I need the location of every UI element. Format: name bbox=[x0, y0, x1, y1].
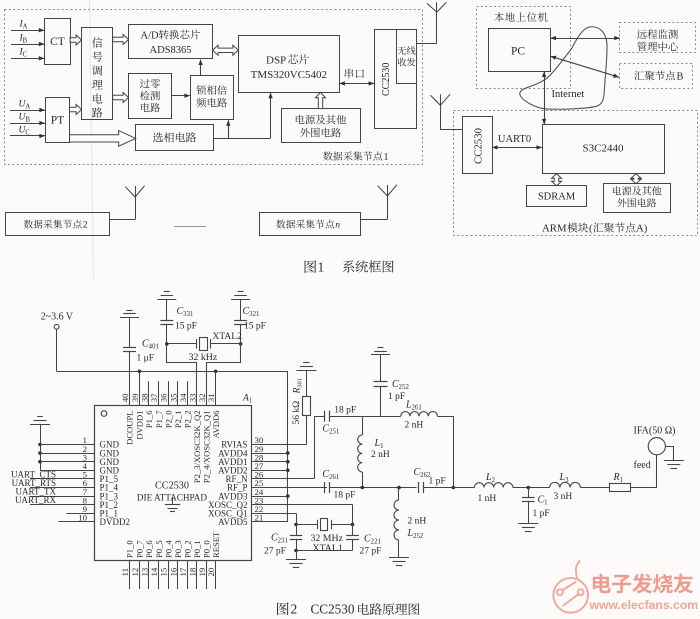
svg-text:2 nH: 2 nH bbox=[405, 421, 424, 431]
svg-text:1: 1 bbox=[384, 152, 389, 163]
antenna node n bbox=[387, 196, 389, 219]
pin 11 P1_0 stub bbox=[129, 561, 131, 589]
svg-text:2: 2 bbox=[291, 602, 298, 617]
arrow zero-cross to PLL bbox=[171, 95, 190, 97]
ground above R301 bbox=[296, 370, 316, 372]
input UB wire bbox=[10, 123, 45, 125]
svg-text:32 kHz: 32 kHz bbox=[189, 352, 218, 363]
svg-text:10: 10 bbox=[78, 513, 87, 523]
dashed box 本地上位机 local host bbox=[477, 7, 571, 89]
power rail bbox=[57, 371, 288, 373]
antenna node1 bbox=[436, 12, 438, 43]
wire phase-selection output bbox=[213, 138, 270, 140]
arrow PC to remote center (double) bbox=[551, 38, 620, 40]
svg-text:1 pF: 1 pF bbox=[429, 477, 446, 487]
svg-text:TMS320VC5402: TMS320VC5402 bbox=[251, 69, 327, 81]
pin 4 GND stub bbox=[40, 470, 95, 472]
top rail wire bbox=[329, 416, 400, 418]
block PC bbox=[489, 29, 551, 72]
wire XTAL2-left to pin33 bbox=[167, 344, 197, 406]
svg-text:CC2530: CC2530 bbox=[311, 602, 355, 617]
svg-text:1 pF: 1 pF bbox=[388, 392, 405, 402]
block CC2530 node1 bbox=[375, 30, 417, 129]
ground above C331 bbox=[157, 299, 176, 301]
ground below crystal caps bbox=[296, 551, 298, 560]
pin 9 P1_1 stub bbox=[67, 513, 96, 515]
svg-text:S3C2440: S3C2440 bbox=[583, 143, 624, 155]
label 数据采集节点1 bbox=[323, 151, 332, 160]
capacitor C261 18pF bbox=[252, 487, 325, 489]
svg-text:Internet: Internet bbox=[552, 89, 585, 100]
block 过零检测电路 zero-crossing detector bbox=[129, 74, 172, 119]
svg-text:UART0: UART0 bbox=[498, 134, 531, 145]
svg-text:SDRAM: SDRAM bbox=[538, 192, 576, 203]
svg-text:27 pF: 27 pF bbox=[360, 547, 382, 557]
block 电源及其他外围电路 (ARM) bbox=[604, 184, 671, 213]
pin 34 stub bbox=[187, 381, 189, 406]
wire C231-C221 bottoms bbox=[296, 550, 353, 552]
pin 20 RESET stub bbox=[215, 561, 217, 589]
pin 40 DCOUPL stub bbox=[129, 371, 131, 405]
svg-text:n: n bbox=[335, 220, 340, 231]
antenna ARM module bbox=[440, 105, 442, 129]
svg-text:3 nH: 3 nH bbox=[554, 492, 573, 502]
block CT bbox=[45, 19, 71, 65]
junction rail/C401/pin39 bbox=[138, 370, 142, 374]
svg-text:P0_2: P0_2 bbox=[183, 540, 193, 558]
watermark text 电子发烧友 bbox=[593, 574, 611, 593]
inductor L261 2nH bbox=[401, 412, 438, 417]
svg-text:16: 16 bbox=[168, 567, 178, 576]
input IC wire bbox=[11, 58, 44, 60]
svg-text:P0_7: P0_7 bbox=[135, 540, 145, 558]
dashed box 远程监测管理中心 remote monitoring center bbox=[620, 23, 696, 53]
junction AVDD bus pin 28 bbox=[286, 460, 290, 464]
pin 22 XOSC_Q1 stub bbox=[252, 513, 297, 515]
caption 图1 系统框图 bbox=[305, 260, 317, 273]
inductor L3 3nH bbox=[550, 482, 581, 487]
caption 图2 CC2530电路原理图 bbox=[277, 602, 289, 615]
antenna node2 bbox=[135, 197, 137, 219]
svg-text:2~3.6 V: 2~3.6 V bbox=[41, 312, 74, 323]
svg-text:39: 39 bbox=[130, 393, 140, 402]
junction GND pin 2 bbox=[38, 451, 42, 455]
capacitor C1 1pF to ground bbox=[528, 488, 530, 498]
capacitor C221 27pF bbox=[352, 525, 354, 536]
svg-text:15 pF: 15 pF bbox=[244, 322, 266, 332]
ground above C401 bbox=[120, 317, 139, 319]
svg-text:1 μF: 1 μF bbox=[137, 354, 155, 364]
pin 24 AVDD3 stub bbox=[252, 496, 288, 498]
inductor L2 1nH bbox=[453, 487, 474, 489]
svg-text:DVDD2: DVDD2 bbox=[100, 517, 131, 527]
block PT bbox=[46, 98, 70, 143]
resistor R301 56k bbox=[303, 397, 311, 416]
svg-text:CT: CT bbox=[50, 36, 65, 48]
wire C262 to output node bbox=[424, 487, 475, 489]
svg-text:P0_5: P0_5 bbox=[154, 540, 164, 558]
wire L2 to L3 bbox=[513, 487, 550, 489]
ground die attach pad bbox=[172, 498, 174, 505]
wire XTAL2-right to pin32 bbox=[207, 344, 241, 406]
junction L1 bottom bbox=[361, 486, 365, 490]
node XTAL2 left bbox=[165, 342, 169, 346]
svg-text:31: 31 bbox=[206, 394, 216, 403]
junction C1 tap bbox=[527, 486, 531, 490]
svg-text:ADS8365: ADS8365 bbox=[149, 45, 191, 56]
svg-text:21: 21 bbox=[255, 513, 264, 523]
arrow signal-conditioning to ADC bbox=[113, 35, 129, 45]
watermark elecfans logo bbox=[553, 561, 588, 613]
crystal XTAL2 32kHz bbox=[167, 343, 196, 345]
svg-text:2: 2 bbox=[83, 220, 88, 231]
arrow PT to phase-selection (big hollow) bbox=[70, 131, 136, 147]
pin 5 P1_5 stub bbox=[30, 478, 95, 480]
pin 27 AVDD2 stub bbox=[252, 470, 288, 472]
svg-text:UART_RX: UART_RX bbox=[15, 495, 56, 505]
pin 16 P0_3 stub bbox=[177, 561, 179, 589]
junction AVDD bus pin 24 bbox=[286, 494, 290, 498]
pin 26 RF_N stub bbox=[252, 478, 315, 480]
pin 25 RF_P stub bbox=[252, 487, 328, 489]
input UA wire bbox=[10, 110, 45, 112]
svg-text:P1_7: P1_7 bbox=[154, 410, 164, 428]
node XTAL2 right bbox=[239, 342, 243, 346]
svg-text:AVDD5: AVDD5 bbox=[218, 517, 248, 527]
capacitor C251 18pF bbox=[324, 411, 326, 422]
arrow power to DSP (hollow) bbox=[316, 92, 326, 108]
svg-text:18 pF: 18 pF bbox=[334, 406, 356, 416]
capacitor C262 1pF bbox=[418, 482, 420, 493]
svg-text:36: 36 bbox=[159, 393, 169, 402]
pin 14 P0_5 stub bbox=[158, 561, 160, 589]
bottom rail wire bbox=[329, 487, 416, 489]
node1 outer dashed box 数据采集节点1 bbox=[5, 10, 423, 165]
pin 7 P1_3 stub bbox=[30, 496, 95, 498]
wire RF_N up bbox=[315, 417, 325, 479]
svg-text:P2_1: P2_1 bbox=[173, 411, 183, 429]
block 数据采集节点2 bbox=[6, 213, 110, 236]
svg-text:12: 12 bbox=[130, 568, 140, 577]
arrow CT to signal conditioning bbox=[70, 35, 82, 45]
svg-text:1: 1 bbox=[318, 260, 325, 275]
wire pin23 XOSC_Q2 down bbox=[352, 505, 354, 525]
chip U1 CC2530 body bbox=[95, 406, 252, 561]
svg-text:B: B bbox=[677, 72, 684, 83]
arrow PC to sink node B (double) bbox=[551, 56, 620, 77]
svg-text:A): A) bbox=[636, 223, 648, 235]
antenna terminal IFA(50 Ohm) bbox=[648, 438, 665, 455]
resistor R1 bbox=[610, 484, 631, 492]
pin 28 AVDD1 stub bbox=[252, 461, 288, 463]
svg-text:20: 20 bbox=[206, 567, 216, 576]
pin 21 AVDD5 stub bbox=[252, 521, 288, 523]
svg-text:34: 34 bbox=[178, 393, 188, 402]
pin 2 GND stub bbox=[40, 453, 95, 455]
svg-text:14: 14 bbox=[149, 567, 159, 576]
input UC wire bbox=[10, 135, 45, 137]
capacitor C321 15pF bbox=[240, 300, 242, 321]
wire pin22 XOSC_Q1 down bbox=[296, 514, 298, 525]
svg-text:15 pF: 15 pF bbox=[175, 322, 197, 332]
arrow S3C2440 to power (hollow double) bbox=[631, 174, 641, 184]
junction AVDD bus pin 29 bbox=[286, 451, 290, 455]
pin 1 GND stub bbox=[40, 444, 95, 446]
svg-text:1 pF: 1 pF bbox=[533, 509, 550, 519]
svg-text:CC2530: CC2530 bbox=[381, 63, 392, 96]
svg-text:www.elecfans.com: www.elecfans.com bbox=[589, 598, 699, 612]
pin 17 P0_2 stub bbox=[187, 561, 189, 589]
dashed box 汇聚节点B sink node B bbox=[620, 64, 693, 89]
ground above C321 bbox=[231, 299, 250, 301]
AVDD bus (vertical) bbox=[287, 371, 289, 522]
svg-text:13: 13 bbox=[140, 567, 150, 576]
svg-text:38: 38 bbox=[140, 393, 150, 402]
input IA wire bbox=[11, 30, 44, 32]
dashed box ARM module 汇聚节点A bbox=[454, 111, 698, 236]
svg-text:XTAL2: XTAL2 bbox=[213, 332, 243, 342]
node XTAL1 right bbox=[351, 523, 355, 527]
block 电源及其他外围电路 power supply node1 bbox=[282, 109, 361, 143]
junction rail/pin31 bbox=[214, 370, 218, 374]
svg-text:P2_2: P2_2 bbox=[183, 411, 193, 429]
pin 3 GND stub bbox=[40, 461, 95, 463]
svg-text:P0_6: P0_6 bbox=[144, 540, 154, 558]
svg-text:18 pF: 18 pF bbox=[334, 491, 356, 501]
svg-text:A/D: A/D bbox=[141, 31, 160, 42]
wire L3 to R1 bbox=[580, 487, 609, 489]
ellipsis between nodes bbox=[174, 226, 206, 228]
svg-text:P0_4: P0_4 bbox=[163, 540, 173, 558]
input IB wire bbox=[11, 44, 44, 46]
pin 29 AVDD4 stub bbox=[252, 453, 288, 455]
svg-text:CC2530: CC2530 bbox=[473, 128, 485, 164]
svg-text:DCOUPL: DCOUPL bbox=[125, 411, 135, 445]
wire pin30 to R301 bbox=[306, 415, 308, 444]
svg-text:XTAL1: XTAL1 bbox=[313, 543, 343, 554]
block A/D converter ADS8365 bbox=[129, 25, 213, 59]
pin 35 stub bbox=[177, 381, 179, 406]
svg-text:2 nH: 2 nH bbox=[408, 517, 427, 527]
serial port double arrow 串口 bbox=[339, 83, 374, 85]
svg-text:37: 37 bbox=[149, 393, 159, 402]
svg-text:PC: PC bbox=[511, 46, 525, 58]
junction output node bbox=[452, 486, 456, 490]
pin 13 P0_6 stub bbox=[148, 561, 150, 589]
internet cloud bbox=[520, 27, 607, 109]
block 选相电路 phase selection bbox=[136, 125, 214, 151]
svg-text:(: ( bbox=[589, 223, 593, 235]
arrow S3C2440 to SDRAM (hollow double) bbox=[552, 174, 562, 186]
scan fold line bbox=[90, 0, 94, 282]
junction GND pin 1 bbox=[38, 443, 42, 447]
capacitor C252 1pF to ground bbox=[371, 354, 390, 356]
junction GND pin 3 bbox=[38, 460, 42, 464]
svg-text:AVDD6: AVDD6 bbox=[211, 410, 221, 439]
wire R1 to antenna bbox=[631, 455, 657, 488]
arrow signal-conditioning to zero-cross bbox=[113, 93, 129, 103]
block DSP TMS320VC5402 bbox=[239, 36, 340, 93]
ground symbol GND bus bbox=[30, 424, 50, 426]
pin 15 P0_4 stub bbox=[168, 561, 170, 589]
ground at antenna bbox=[666, 447, 674, 461]
pin 10 DVDD2 stub bbox=[59, 521, 96, 523]
crystal XTAL1 32MHz bbox=[296, 524, 318, 526]
svg-text:35: 35 bbox=[168, 393, 178, 402]
svg-text:56 kΩ: 56 kΩ bbox=[292, 401, 302, 425]
block 锁相倍频电路 PLL frequency multiplier bbox=[191, 76, 234, 120]
junction L252 tap bbox=[397, 486, 401, 490]
svg-text:15: 15 bbox=[159, 567, 169, 576]
pin1 marker bbox=[101, 411, 107, 417]
svg-text:DVDD1: DVDD1 bbox=[135, 411, 145, 440]
pin 6 P1_4 stub bbox=[30, 487, 95, 489]
wire L261 to corner bbox=[438, 417, 454, 488]
svg-text:1 nH: 1 nH bbox=[478, 494, 497, 504]
inductor L1 2nH bbox=[362, 416, 364, 435]
pin 37 stub bbox=[158, 381, 160, 406]
svg-text:17: 17 bbox=[178, 567, 188, 576]
svg-text:IFA(50 Ω): IFA(50 Ω) bbox=[634, 426, 676, 437]
svg-text:P1_0: P1_0 bbox=[125, 540, 135, 558]
pin 19 P0_0 stub bbox=[206, 561, 208, 589]
pin 23 XOSC_Q2 stub bbox=[252, 504, 353, 506]
pin 8 P1_2 stub bbox=[30, 504, 95, 506]
capacitor C231 27pF bbox=[296, 525, 298, 536]
svg-text:P1_6: P1_6 bbox=[144, 410, 154, 428]
arrow PT to signal conditioning bbox=[70, 105, 82, 115]
junction C231 bottom bbox=[294, 549, 298, 553]
inductor L252 2nH to ground bbox=[398, 488, 400, 501]
svg-text:DSP: DSP bbox=[266, 55, 286, 67]
svg-text:CC2530: CC2530 bbox=[155, 481, 189, 492]
block CC2530 (ARM module) bbox=[463, 117, 493, 174]
arrow into PLL bottom bbox=[228, 120, 230, 138]
block S3C2440 bbox=[543, 125, 665, 174]
block SDRAM bbox=[527, 186, 587, 207]
node XTAL1 left bbox=[294, 523, 298, 527]
svg-text:27 pF: 27 pF bbox=[264, 547, 286, 557]
GND bus wire bbox=[40, 425, 42, 471]
arrow PLL to ADC bbox=[200, 60, 202, 76]
arrow into DSP bottom bbox=[270, 93, 272, 138]
svg-text:11: 11 bbox=[120, 568, 130, 576]
pin 18 P0_1 stub bbox=[196, 561, 198, 589]
svg-text:P0_3: P0_3 bbox=[173, 540, 183, 558]
junction AVDD bus pin 27 bbox=[286, 469, 290, 473]
svg-text:2 nH: 2 nH bbox=[371, 450, 390, 460]
capacitor C331 15pF bbox=[166, 300, 168, 321]
svg-text:PT: PT bbox=[51, 115, 64, 127]
pin 30 RVIAS stub bbox=[252, 444, 307, 446]
pin 39 DVDD1 stub bbox=[139, 371, 141, 405]
block 信号调理电路 signal conditioning bbox=[82, 28, 113, 120]
wire power terminal to rail bbox=[56, 329, 58, 371]
arrow PC to S3C2440 (double vertical) bbox=[544, 72, 546, 125]
block 数据采集节点n bbox=[260, 213, 361, 236]
pin 31 AVDD6 stub bbox=[215, 371, 217, 405]
capacitor C401 1uF bbox=[129, 318, 131, 348]
svg-text:RESET: RESET bbox=[211, 531, 221, 558]
arrow CC2530 to S3C2440 (double) bbox=[492, 147, 542, 149]
arrow ADC to DSP (double) bbox=[213, 45, 239, 55]
svg-text:feed: feed bbox=[634, 460, 651, 471]
svg-text:ARM: ARM bbox=[542, 223, 567, 235]
pin 12 P0_7 stub bbox=[139, 561, 141, 589]
svg-text:P2_0: P2_0 bbox=[163, 411, 173, 429]
pin 38 stub bbox=[148, 381, 150, 406]
svg-text:40: 40 bbox=[120, 393, 130, 402]
block 无线收发 RF transceiver bbox=[397, 30, 417, 84]
pin 36 stub bbox=[168, 381, 170, 406]
